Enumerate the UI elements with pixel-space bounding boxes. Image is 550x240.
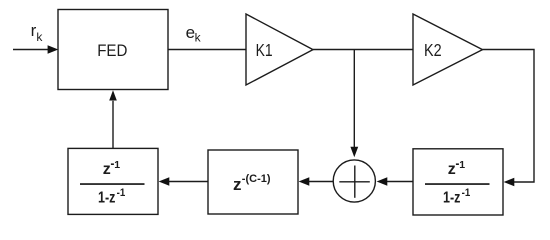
wire accumulator left up to FED	[109, 90, 117, 148]
svg-text:k: k	[195, 31, 202, 45]
summer (plus junction)	[333, 160, 375, 202]
wire branch from K1-K2 line down to summer	[350, 50, 358, 158]
wire input rk arrow into FED	[13, 45, 58, 53]
block FED	[58, 10, 168, 90]
svg-text:-1: -1	[117, 187, 126, 199]
svg-text:K1: K1	[256, 40, 273, 60]
svg-text:1-z: 1-z	[443, 190, 461, 207]
wire accumulator right to summer	[377, 177, 413, 185]
label e_k	[186, 23, 202, 45]
svg-text:z: z	[448, 161, 456, 178]
block delay z^-(C-1)	[208, 150, 298, 214]
svg-text:-1: -1	[462, 187, 471, 199]
label r_k	[31, 21, 44, 44]
svg-text:-(C-1): -(C-1)	[242, 173, 271, 185]
svg-text:1: 1	[114, 159, 120, 171]
svg-text:FED: FED	[97, 41, 127, 60]
block accumulator left: z^-1/(1-z^-1)	[68, 148, 158, 214]
gain K2	[413, 14, 483, 85]
block accumulator right: z^-1/(1-z^-1)	[413, 149, 503, 215]
svg-text:K2: K2	[424, 40, 442, 60]
svg-text:z: z	[233, 175, 242, 194]
wire K2 output right and down to accumulator box	[483, 50, 535, 187]
wire delay block to accumulator left	[159, 177, 208, 185]
svg-text:z: z	[103, 161, 111, 178]
svg-text:1: 1	[459, 159, 465, 171]
wire FED to K1	[168, 49, 246, 51]
wire K1 to K2	[313, 49, 413, 51]
gain K1	[246, 14, 313, 85]
wire summer to delay block	[299, 177, 334, 185]
svg-text:1-z: 1-z	[98, 190, 116, 207]
svg-text:k: k	[36, 30, 43, 44]
